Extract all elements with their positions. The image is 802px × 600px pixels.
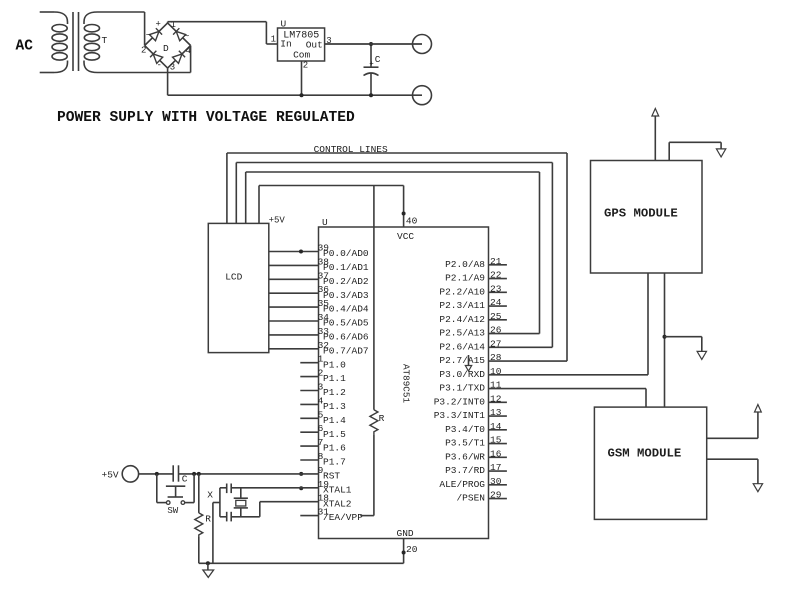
svg-text:39: 39: [318, 243, 330, 254]
svg-text:~: ~: [184, 32, 189, 42]
svg-text:U: U: [322, 217, 328, 228]
svg-text:/EA/VPP: /EA/VPP: [323, 512, 363, 523]
svg-text:P2.7/A15: P2.7/A15: [439, 355, 485, 366]
svg-text:P1.5: P1.5: [323, 429, 346, 440]
svg-text:U: U: [281, 19, 287, 30]
svg-text:19: 19: [318, 479, 330, 490]
svg-text:R: R: [205, 513, 211, 524]
svg-text:P2.4/A12: P2.4/A12: [439, 314, 485, 325]
svg-text:ALE/PROG: ALE/PROG: [439, 479, 485, 490]
svg-text:37: 37: [318, 270, 329, 281]
svg-text:+: +: [369, 61, 374, 69]
svg-text:33: 33: [318, 326, 330, 337]
svg-text:+5V: +5V: [269, 216, 286, 226]
svg-text:GPS MODULE: GPS MODULE: [604, 207, 678, 221]
svg-text:GND: GND: [397, 528, 414, 539]
svg-text:P0.2/AD2: P0.2/AD2: [323, 276, 369, 287]
svg-text:4: 4: [186, 46, 191, 56]
svg-text:18: 18: [318, 493, 330, 504]
svg-text:35: 35: [318, 298, 330, 309]
svg-text:P1.2: P1.2: [323, 387, 346, 398]
svg-text:P3.6/WR: P3.6/WR: [445, 451, 485, 462]
svg-text:32: 32: [318, 340, 330, 351]
svg-text:P1.0: P1.0: [323, 359, 346, 370]
svg-text:T: T: [102, 35, 108, 46]
svg-text:P3.7/RD: P3.7/RD: [445, 465, 485, 476]
svg-text:38: 38: [318, 256, 330, 267]
svg-text:SW: SW: [167, 506, 178, 516]
svg-text:P3.5/T1: P3.5/T1: [445, 438, 485, 449]
svg-text:P0.1/AD1: P0.1/AD1: [323, 262, 369, 273]
svg-text:20: 20: [406, 544, 418, 555]
svg-text:LCD: LCD: [225, 272, 242, 283]
svg-text:P0.7/AD7: P0.7/AD7: [323, 345, 369, 356]
svg-text:P0.3/AD3: P0.3/AD3: [323, 290, 369, 301]
svg-text:P2.1/A9: P2.1/A9: [445, 273, 485, 284]
svg-text:P3.3/INT1: P3.3/INT1: [434, 410, 486, 421]
svg-text:2: 2: [303, 60, 308, 70]
svg-text:/PSEN: /PSEN: [456, 493, 485, 504]
svg-text:VCC: VCC: [397, 231, 414, 242]
svg-text:P2.6/A14: P2.6/A14: [439, 341, 485, 352]
svg-text:X: X: [207, 489, 213, 500]
svg-text:P1.7: P1.7: [323, 457, 346, 468]
svg-text:31: 31: [318, 507, 330, 518]
svg-text:C: C: [182, 473, 188, 484]
svg-text:AC: AC: [16, 39, 34, 55]
svg-text:GSM MODULE: GSM MODULE: [608, 447, 682, 461]
svg-text:34: 34: [318, 312, 330, 323]
svg-text:-: -: [157, 61, 162, 71]
svg-text:P3.1/TXD: P3.1/TXD: [439, 383, 485, 394]
svg-text:P0.5/AD5: P0.5/AD5: [323, 318, 369, 329]
svg-text:P1.1: P1.1: [323, 373, 346, 384]
svg-text:36: 36: [318, 284, 330, 295]
svg-text:P1.3: P1.3: [323, 401, 346, 412]
svg-text:P2.3/A11: P2.3/A11: [439, 300, 485, 311]
svg-text:2: 2: [141, 46, 146, 56]
svg-text:P3.0/RXD: P3.0/RXD: [439, 369, 485, 380]
svg-text:P0.4/AD4: P0.4/AD4: [323, 304, 369, 315]
svg-text:P2.5/A13: P2.5/A13: [439, 328, 485, 339]
svg-text:~: ~: [146, 31, 151, 41]
svg-text:P1.4: P1.4: [323, 415, 346, 426]
svg-text:3: 3: [170, 63, 175, 73]
svg-text:D: D: [163, 43, 169, 54]
svg-text:+: +: [156, 20, 161, 30]
svg-text:P0.6/AD6: P0.6/AD6: [323, 332, 369, 343]
svg-text:R: R: [379, 413, 385, 424]
svg-text:P3.2/INT0: P3.2/INT0: [434, 396, 486, 407]
svg-text:P1.6: P1.6: [323, 443, 346, 454]
svg-text:Com: Com: [293, 50, 310, 61]
svg-text:POWER SUPLY WITH VOLTAGE REGUL: POWER SUPLY WITH VOLTAGE REGULATED: [57, 110, 355, 126]
svg-text:P2.2/A10: P2.2/A10: [439, 286, 485, 297]
svg-text:P2.0/A8: P2.0/A8: [445, 259, 485, 270]
svg-text:P3.4/T0: P3.4/T0: [445, 424, 485, 435]
svg-text:+5V: +5V: [102, 470, 119, 481]
svg-text:AT89C51: AT89C51: [400, 364, 411, 403]
svg-text:In: In: [280, 39, 291, 50]
svg-text:P0.0/AD0: P0.0/AD0: [323, 248, 369, 259]
svg-text:40: 40: [406, 215, 418, 226]
svg-text:C: C: [375, 54, 381, 65]
svg-text:1: 1: [271, 34, 276, 44]
